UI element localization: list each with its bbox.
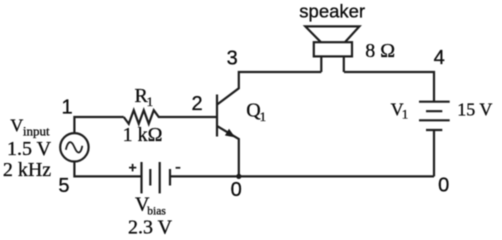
svg-text:speaker: speaker [299, 1, 365, 22]
svg-text:input: input [23, 124, 50, 139]
svg-text:2.3 V: 2.3 V [128, 217, 173, 239]
svg-text:15 V: 15 V [457, 100, 492, 120]
svg-text:1: 1 [260, 109, 267, 124]
svg-text:1: 1 [402, 106, 409, 121]
svg-text:bias: bias [147, 205, 166, 217]
svg-text:2: 2 [191, 93, 202, 115]
svg-text:4: 4 [434, 47, 445, 69]
svg-text:1: 1 [147, 94, 154, 109]
svg-text:2 kHz: 2 kHz [3, 159, 51, 181]
svg-text:V: V [10, 116, 23, 136]
svg-text:5: 5 [58, 175, 69, 197]
svg-text:1.5 V: 1.5 V [7, 138, 52, 160]
svg-text:1: 1 [61, 96, 72, 118]
svg-text:1 kΩ: 1 kΩ [123, 124, 163, 146]
svg-text:0: 0 [438, 174, 449, 196]
svg-text:0: 0 [231, 179, 242, 201]
svg-text:8 Ω: 8 Ω [365, 40, 395, 62]
svg-text:3: 3 [227, 47, 238, 69]
